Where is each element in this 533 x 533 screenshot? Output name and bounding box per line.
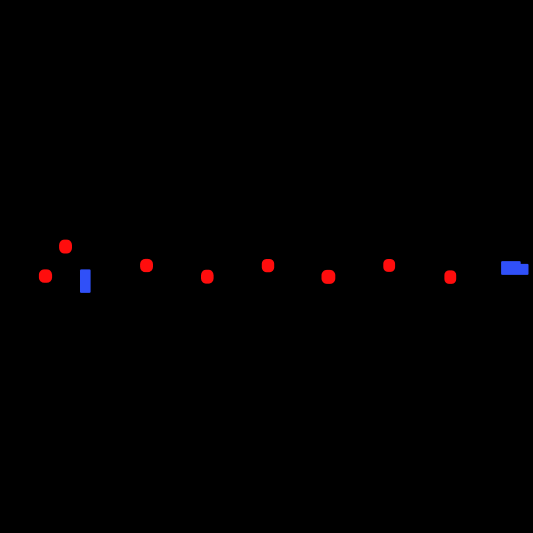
atom O1 carbonyl oxygen (C=O) <box>59 240 72 254</box>
wire carbonyl C=O1 double bond <box>63 253 68 266</box>
wire ester O2 to carbonyl C <box>52 266 65 277</box>
atom O6 ether oxygen <box>322 270 336 284</box>
wire carbonyl C to amide N <box>65 266 85 278</box>
atom O2 ester oxygen <box>39 269 52 282</box>
atom O5 ether oxygen <box>262 259 274 272</box>
atom O8 ether oxygen <box>444 270 456 284</box>
wire O5 to O6 (ethylene) <box>274 266 321 277</box>
wire O3 to O4 (ethylene) <box>153 266 201 277</box>
bonds of tert-butyl group (black on black, invisible) <box>5 243 46 277</box>
wire O6 to O7 (ethylene) <box>335 266 383 277</box>
atom N2 terminal amine NH2 (letters N,H + subscript 2) <box>501 261 528 275</box>
wire amide N to O3 (ethylene) <box>91 266 140 277</box>
wire O7 to O8 (ethylene) <box>395 266 444 277</box>
wire O8 to terminal amine N <box>456 266 501 277</box>
atom N1 amide N-H (N over H) <box>80 269 91 293</box>
wire O4 to O5 (ethylene) <box>214 266 262 277</box>
atom O3 ether oxygen <box>140 259 153 272</box>
atom O7 ether oxygen <box>383 259 395 272</box>
atom O4 ether oxygen <box>201 270 214 284</box>
